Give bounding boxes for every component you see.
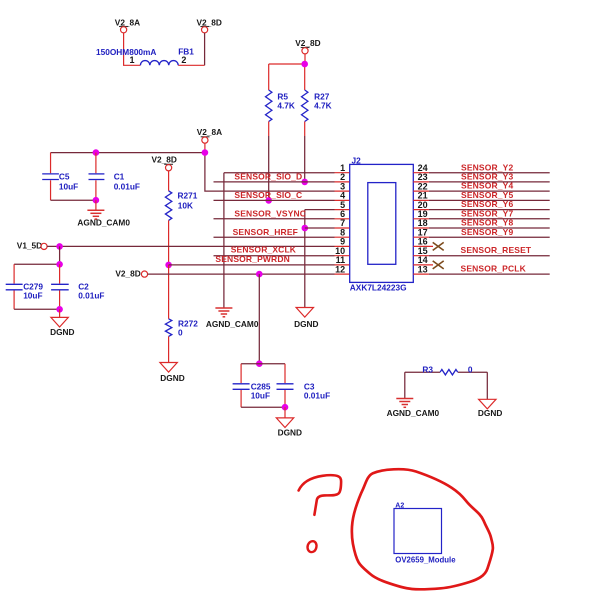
wire R3 right to DGND	[486, 372, 488, 399]
svg-text:DGND: DGND	[278, 427, 302, 437]
capacitor C3 0.01uF	[277, 364, 331, 408]
ground AGND_CAM0 (under R3)	[387, 399, 440, 418]
wire caps bottom rail	[241, 406, 285, 408]
wire down to C285/C3 rail	[258, 274, 260, 364]
junction caps top rail	[256, 360, 263, 367]
wire SENSOR_SIO_D (pin2 row)	[214, 181, 335, 183]
power port V1_5D	[17, 241, 47, 251]
junction C2 top	[56, 261, 63, 268]
svg-text:10uF: 10uF	[59, 181, 78, 191]
module A2 OV2659 box	[394, 503, 456, 565]
left pin stubs 1-12	[335, 173, 350, 274]
resistor R5 4.7K	[266, 90, 295, 122]
svg-text:SENSOR_VSYNC: SENSOR_VSYNC	[234, 209, 306, 219]
junction R27 / pin2 row	[301, 179, 308, 186]
wire PWRDN row to R272	[168, 265, 170, 319]
wire R5 to SENSOR_SIO_C row	[268, 122, 270, 137]
svg-text:10uF: 10uF	[23, 290, 42, 300]
wire pin5 row	[305, 209, 335, 211]
capacitor C1 0.01uF	[89, 153, 140, 201]
power port V2_8D (above R5/R27)	[295, 38, 320, 54]
junction V1_5D / caps	[56, 243, 63, 250]
wire V2_8A down to pin3 row	[205, 153, 335, 192]
power port V2_8D (top, right of FB1)	[197, 17, 222, 33]
ground DGND (under connector)	[294, 308, 318, 329]
svg-text:V2_8A: V2_8A	[115, 17, 140, 27]
wire pin7 row	[305, 227, 335, 229]
wire R27 to SENSOR_SIO_D row	[304, 122, 306, 137]
svg-text:V1_5D: V1_5D	[17, 241, 42, 251]
ground DGND (under C3)	[276, 407, 302, 437]
svg-text:R271: R271	[178, 191, 198, 201]
svg-text:10uF: 10uF	[251, 390, 270, 400]
svg-text:4.7K: 4.7K	[277, 101, 295, 111]
svg-text:AGND_CAM0: AGND_CAM0	[206, 319, 259, 329]
capacitor C5 10uF	[42, 153, 78, 201]
svg-text:2: 2	[181, 55, 186, 65]
svg-text:0.01uF: 0.01uF	[78, 290, 104, 300]
svg-text:AXK7L24223G: AXK7L24223G	[350, 282, 407, 292]
wire pin5 row down to DGND	[304, 210, 306, 308]
wire V1_5D to pin9 row	[47, 245, 334, 247]
junction R5 / pin4 row	[265, 197, 272, 204]
svg-text:DGND: DGND	[50, 327, 74, 337]
wire R3 left to AGND_CAM0	[404, 372, 406, 398]
right pin stubs	[413, 173, 433, 274]
wire V2_8A to FB1 pin1	[124, 33, 141, 65]
annotation question-mark dot (hand drawn)	[308, 541, 317, 552]
svg-text:SENSOR_XCLK: SENSOR_XCLK	[231, 244, 297, 254]
wire caps bottom rail	[14, 308, 60, 310]
right side net wires	[429, 173, 550, 274]
resistor R3 0	[405, 365, 488, 375]
svg-text:0.01uF: 0.01uF	[304, 390, 330, 400]
svg-text:0.01uF: 0.01uF	[114, 181, 140, 191]
power port V2_8A (left rail)	[197, 127, 222, 143]
ground AGND_CAM0 (under connector)	[206, 308, 259, 329]
svg-text:4.7K: 4.7K	[314, 101, 332, 111]
resistor R27 4.7K	[302, 90, 332, 122]
svg-text:SENSOR_PWRDN: SENSOR_PWRDN	[215, 254, 290, 264]
junction V2_8A rail	[202, 149, 209, 156]
annotation question mark (hand drawn)	[299, 475, 342, 515]
wire SENSOR_SIO_C (pin4 row)	[214, 199, 335, 201]
capacitor C2 0.01uF	[51, 264, 104, 309]
wire SENSOR_PWRDN (pin11 row)	[169, 264, 335, 266]
junction caps bottom / DGND	[282, 404, 289, 411]
junction pin12 row / C285 branch	[256, 271, 263, 278]
ground AGND_CAM0 (under C1)	[77, 200, 130, 227]
svg-text:0: 0	[178, 327, 183, 337]
svg-text:13: 13	[418, 264, 428, 274]
svg-text:A2: A2	[395, 503, 404, 510]
wire V2_8A rail to caps	[51, 152, 205, 154]
capacitor C279 10uF	[6, 264, 44, 309]
svg-text:V2_8D: V2_8D	[197, 17, 222, 27]
node junction at V2_8D / R5 R27	[301, 61, 308, 68]
resistor R271 10K	[165, 191, 197, 221]
wire V2_8A down to rail	[204, 143, 206, 152]
power port V2_8D (above R271)	[152, 154, 177, 170]
svg-text:0: 0	[468, 365, 473, 375]
wire pin1 row down to AGND_CAM0	[223, 173, 225, 308]
no-connect X pin 16	[433, 242, 444, 250]
svg-text:SENSOR_RESET: SENSOR_RESET	[461, 245, 532, 255]
junction C1 top	[93, 149, 100, 156]
wire V2_8D to pin12 row	[148, 273, 335, 275]
svg-text:SENSOR_SIO_C: SENSOR_SIO_C	[234, 190, 302, 200]
svg-text:150OHM800mA: 150OHM800mA	[96, 47, 156, 57]
capacitor C285 10uF	[233, 364, 271, 408]
resistor R272 0	[165, 319, 198, 338]
wire caps bottom rail	[51, 199, 96, 201]
svg-text:1: 1	[129, 55, 134, 65]
junction pin7 row	[302, 225, 309, 232]
svg-text:SENSOR_HREF: SENSOR_HREF	[233, 227, 298, 237]
svg-text:C1: C1	[114, 171, 125, 181]
svg-text:V2_8D: V2_8D	[152, 154, 177, 164]
svg-text:AGND_CAM0: AGND_CAM0	[77, 218, 130, 228]
svg-text:OV2659_Module: OV2659_Module	[395, 556, 456, 565]
svg-text:DGND: DGND	[294, 319, 318, 329]
wire V1_5D down to caps rail	[14, 246, 60, 264]
wire SENSOR_VSYNC (pin6 row)	[214, 218, 335, 220]
ferrite bead FB1	[96, 46, 194, 65]
ground DGND (under R3)	[478, 399, 502, 418]
svg-text:V2_8D: V2_8D	[295, 38, 320, 48]
svg-text:SENSOR_PCLK: SENSOR_PCLK	[461, 263, 527, 273]
connector J2 box	[350, 156, 414, 293]
wire SENSOR_HREF (pin8 row)	[214, 236, 335, 238]
svg-text:DGND: DGND	[478, 408, 502, 418]
svg-text:AGND_CAM0: AGND_CAM0	[387, 408, 440, 418]
power port V2_8D (pin12 row)	[115, 269, 147, 279]
wire caps top rail	[241, 363, 285, 365]
svg-text:V2_8D: V2_8D	[115, 269, 140, 279]
svg-text:DGND: DGND	[160, 373, 184, 383]
wire pin1 row	[224, 172, 335, 174]
svg-text:10K: 10K	[178, 201, 193, 211]
junction caps bottom	[93, 197, 100, 204]
svg-text:C5: C5	[59, 171, 70, 181]
pin numbers right	[418, 163, 428, 274]
svg-text:R3: R3	[422, 365, 433, 375]
svg-text:J2: J2	[352, 156, 362, 166]
svg-text:SENSOR_Y9: SENSOR_Y9	[461, 227, 513, 237]
junction R271/R272/pin11 row	[165, 262, 172, 269]
wire V2_8D to R271	[168, 171, 170, 191]
svg-text:V2_8A: V2_8A	[197, 127, 222, 137]
svg-text:12: 12	[335, 264, 345, 274]
wire R272 to DGND	[168, 336, 170, 362]
wire V2_8D to R5/R27 tops	[269, 54, 305, 90]
svg-text:SENSOR_SIO_D: SENSOR_SIO_D	[234, 172, 302, 182]
wire R271 to PWRDN row	[168, 220, 170, 265]
ground DGND (under R272)	[160, 363, 185, 384]
wire FB1 pin2 to V2_8D	[178, 64, 204, 66]
junction caps bottom / DGND	[56, 306, 63, 313]
ground DGND (under C2)	[50, 309, 74, 337]
pin numbers left	[335, 163, 345, 274]
annotation circle blob (hand drawn)	[352, 469, 493, 589]
wire SENSOR_XCLK (pin10 row)	[214, 255, 335, 257]
power port V2_8A (top left)	[115, 17, 140, 33]
no-connect X pin 14	[433, 261, 444, 269]
